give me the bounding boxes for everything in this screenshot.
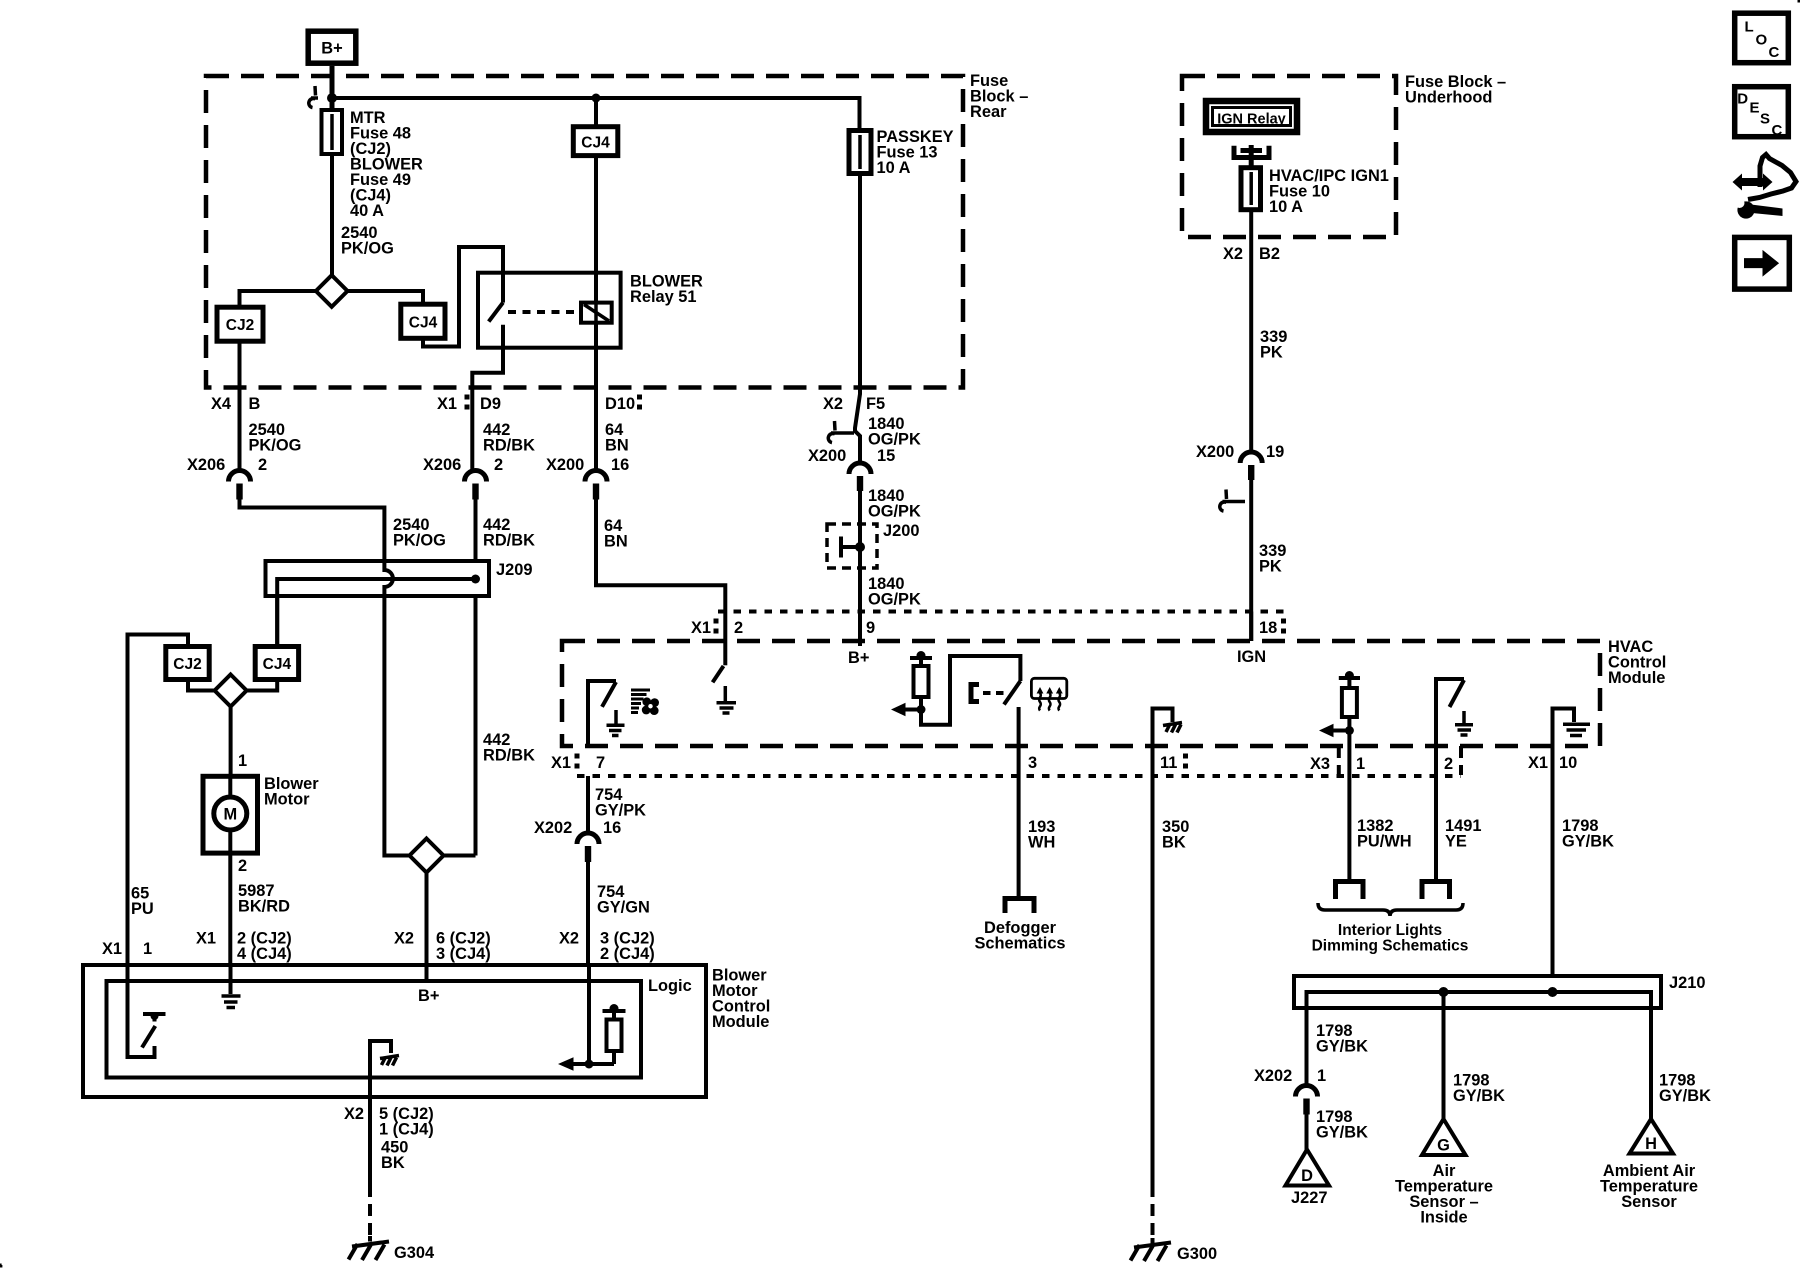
blower speed resistor T-bar — [910, 656, 932, 660]
svg-text:18: 18 — [1259, 619, 1277, 637]
svg-text:Underhood: Underhood — [1405, 89, 1492, 107]
separator dots 11 — [1183, 754, 1188, 759]
svg-text:1: 1 — [238, 752, 247, 770]
junction dot J210 G — [1439, 987, 1449, 997]
actuator bracket — [971, 685, 979, 702]
wire CJ2 to diamond — [188, 680, 215, 691]
wire 350 BK dashed tail — [1151, 1185, 1155, 1238]
separator dots D10 — [637, 395, 642, 400]
connector X200 pin15 — [849, 463, 871, 474]
svg-text:11: 11 — [1160, 754, 1177, 772]
svg-text:3 (CJ4): 3 (CJ4) — [436, 945, 491, 963]
module switch lever — [142, 1026, 155, 1048]
svg-text:Relay 51: Relay 51 — [630, 288, 697, 306]
connector box CJ2 (lower) — [166, 647, 209, 680]
svg-text:Module: Module — [712, 1013, 769, 1031]
wire CJ4 top to relay coil — [594, 156, 598, 303]
svg-text:G304: G304 — [394, 1244, 435, 1262]
wire B+ feed down — [330, 66, 335, 110]
wire CJ4 to relay common — [423, 247, 503, 347]
wire 65 PU — [128, 635, 189, 966]
svg-text:RD/BK: RD/BK — [483, 437, 535, 455]
svg-text:OG/PK: OG/PK — [868, 503, 921, 521]
ground symbol below X1-7 switch — [607, 710, 625, 736]
scan artifact top-right — [1798, 0, 1800, 3]
svg-text:GY/BK: GY/BK — [1453, 1087, 1505, 1105]
svg-text:GY/BK: GY/BK — [1562, 833, 1614, 851]
blower speed resistor — [919, 658, 923, 666]
relay actuation dashes — [508, 310, 578, 314]
icon box right arrow — [1735, 237, 1790, 289]
triangle terminal H — [1630, 1119, 1674, 1154]
svg-text:CJ4: CJ4 — [409, 315, 438, 332]
wire 193 WH to defogger — [1017, 776, 1021, 897]
internal ground at X1-10 — [1553, 709, 1575, 777]
svg-text:L: L — [1745, 19, 1754, 36]
svg-text:PK: PK — [1259, 558, 1282, 576]
wire 1491 YE — [1434, 776, 1438, 880]
svg-text:Dimming Schematics: Dimming Schematics — [1312, 938, 1469, 955]
svg-text:40 A: 40 A — [350, 202, 384, 220]
off-page terminal defogger — [1005, 899, 1034, 914]
connector X200 pin19 — [1240, 452, 1262, 463]
svg-text:7: 7 — [596, 754, 605, 772]
wire 754 GY/GN to BMCM — [586, 861, 590, 965]
svg-text:BN: BN — [605, 437, 629, 455]
svg-text:X1: X1 — [691, 619, 711, 637]
svg-text:C: C — [1772, 122, 1783, 139]
motor symbol M — [214, 797, 247, 830]
svg-text:WH: WH — [1028, 834, 1055, 852]
svg-text:E: E — [1750, 100, 1760, 117]
power symbol B+ — [308, 31, 356, 63]
svg-text:GY/PK: GY/PK — [595, 802, 646, 820]
dimmer resistor T-bar — [1339, 676, 1360, 680]
scan artifact bottom-left — [0, 1264, 2, 1268]
svg-text:2 (CJ4): 2 (CJ4) — [600, 945, 655, 963]
svg-text:B+: B+ — [848, 649, 869, 667]
connector box CJ2 — [217, 307, 263, 341]
svg-text:GY/BK: GY/BK — [1659, 1087, 1711, 1105]
separator dots X1-7 — [575, 754, 580, 759]
svg-text:X1: X1 — [102, 940, 122, 958]
wire X206 down through J209 — [474, 499, 478, 856]
wire 350 BK — [1151, 776, 1155, 1185]
svg-text:Module: Module — [1608, 669, 1665, 687]
svg-text:16: 16 — [611, 456, 629, 474]
svg-text:Interior Lights: Interior Lights — [1338, 922, 1442, 939]
wire X206 to J209 — [240, 499, 385, 561]
svg-text:X1: X1 — [1528, 754, 1548, 772]
relay coil box — [581, 303, 612, 323]
svg-text:X2: X2 — [823, 395, 843, 413]
svg-text:J210: J210 — [1669, 974, 1705, 992]
svg-text:3: 3 — [1028, 754, 1037, 772]
icon harness outline — [1748, 155, 1796, 200]
ground symbol below X1-2 switch — [717, 686, 737, 713]
svg-text:1: 1 — [1317, 1067, 1326, 1085]
svg-text:2: 2 — [494, 456, 503, 474]
svg-text:2: 2 — [238, 857, 247, 875]
wire 754 GY/PK to X202 — [586, 776, 590, 833]
wire bus down to CJ4 top box — [594, 98, 598, 127]
svg-text:4 (CJ4): 4 (CJ4) — [237, 945, 292, 963]
svg-text:IGN Relay: IGN Relay — [1217, 112, 1286, 128]
svg-text:X2: X2 — [394, 930, 414, 948]
relay switch lever — [489, 303, 503, 322]
connector X206 pin2 (right) — [465, 471, 487, 482]
svg-text:2: 2 — [258, 456, 267, 474]
IGN Relay box — [1206, 101, 1297, 132]
wire 18 entry stub — [1249, 612, 1253, 642]
icon wrench — [1735, 198, 1783, 219]
svg-text:X2: X2 — [559, 930, 579, 948]
svg-text:M: M — [223, 806, 237, 824]
splice diamond S1 — [316, 275, 348, 307]
svg-text:B+: B+ — [321, 40, 342, 58]
junction dot J210 feed — [1548, 987, 1558, 997]
fuse MTR Fuse 48 / BLOWER Fuse 49 — [322, 110, 343, 154]
connector box CJ4 (lower) — [255, 647, 298, 680]
wire F5 jog — [855, 390, 860, 463]
svg-text:RD/BK: RD/BK — [483, 532, 535, 550]
svg-text:OG/PK: OG/PK — [868, 431, 921, 449]
connector box CJ4 (top) — [573, 127, 618, 156]
chassis ground glyph 11 — [1163, 723, 1182, 733]
fuse block - rear dashed border — [206, 76, 963, 388]
svg-text:YE: YE — [1445, 833, 1467, 851]
svg-text:X200: X200 — [546, 456, 584, 474]
svg-text:PK/OG: PK/OG — [393, 532, 446, 550]
blower motor control module outer box — [83, 965, 706, 1097]
wire 2540 hop through J209 — [384, 561, 409, 856]
svg-text:X200: X200 — [808, 447, 846, 465]
splice diamond S2 — [215, 675, 247, 707]
svg-text:B+: B+ — [418, 987, 439, 1005]
svg-text:1: 1 — [1356, 755, 1365, 773]
svg-text:B: B — [249, 395, 261, 413]
off-page terminal 1382 — [1336, 882, 1364, 900]
separator dots X1-D9 — [465, 395, 470, 400]
svg-text:10 A: 10 A — [877, 159, 911, 177]
relay switch common stub — [501, 273, 505, 303]
thermal switch fixed contact wire to 3 — [1017, 707, 1021, 776]
arrow into logic — [573, 1062, 614, 1066]
svg-text:CJ4: CJ4 — [581, 135, 610, 152]
internal ground at 11 — [1153, 709, 1173, 777]
svg-text:J209: J209 — [496, 561, 532, 579]
svg-text:2: 2 — [1444, 755, 1453, 773]
svg-text:H: H — [1645, 1135, 1657, 1153]
actuation dashes — [983, 691, 1006, 695]
clip symbol at B+ — [309, 86, 318, 108]
module switch T-bar — [143, 1012, 166, 1016]
wire X1-2 to internal ground — [229, 965, 233, 994]
wire diamond to CJ4 — [348, 291, 424, 304]
svg-text:GY/GN: GY/GN — [597, 899, 650, 917]
connector X200 pin16 — [585, 471, 607, 482]
svg-text:X206: X206 — [423, 456, 461, 474]
fuse block underhood dashed border — [1182, 76, 1396, 237]
ground symbol X1-10 — [1563, 724, 1590, 735]
svg-text:BK: BK — [1162, 834, 1186, 852]
svg-text:BK/RD: BK/RD — [238, 898, 290, 916]
svg-text:19: 19 — [1266, 443, 1284, 461]
wire X1-1 into module — [128, 965, 155, 1057]
wire 1798 GY/BK from X1-10 to J210 — [1551, 776, 1555, 976]
wire main bus to passkey fuse — [332, 98, 860, 131]
icon box LOC — [1735, 13, 1789, 63]
svg-text:G: G — [1437, 1137, 1450, 1155]
wire X2-3 into module — [587, 965, 591, 1064]
junction dot J209 — [471, 575, 480, 584]
wire 64 BN to X1-2 — [596, 499, 725, 641]
off-page terminal 1491 — [1422, 882, 1450, 900]
X3 connector sub-box dashed — [1339, 746, 1461, 775]
wire CJ2 to X4-B exit — [238, 341, 242, 470]
svg-text:Logic: Logic — [648, 977, 692, 995]
wire X2-6 B+ stub — [425, 965, 429, 983]
svg-text:OG/PK: OG/PK — [868, 591, 921, 609]
svg-text:F5: F5 — [866, 395, 885, 413]
blower motor control module logic box — [107, 981, 642, 1078]
wire relay coil to D10 — [594, 323, 598, 471]
svg-text:Schematics: Schematics — [974, 935, 1065, 953]
svg-text:Sensor: Sensor — [1621, 1193, 1677, 1211]
relay coil diagonal — [584, 305, 609, 322]
interior lights brace — [1318, 903, 1463, 916]
svg-text:X200: X200 — [1196, 443, 1234, 461]
ground G300 — [1131, 1238, 1172, 1261]
svg-text:X1: X1 — [551, 754, 571, 772]
blower motor box — [203, 776, 258, 853]
relay fixed contact to D9 — [472, 325, 503, 471]
svg-text:PK: PK — [1260, 344, 1283, 362]
svg-text:X206: X206 — [187, 456, 225, 474]
wire 1382 PU/WH — [1347, 746, 1351, 880]
splice diamond S3 — [410, 839, 444, 873]
clip symbol at F5 — [828, 421, 854, 443]
separator dots X1-2 — [714, 619, 719, 624]
chassis ground glyph BMCM — [380, 1056, 399, 1066]
icon double arrow — [1733, 174, 1773, 191]
junction dot J200 — [855, 542, 865, 552]
svg-text:CJ2: CJ2 — [226, 317, 254, 334]
separator dots 18 — [1281, 619, 1286, 624]
svg-text:GY/BK: GY/BK — [1316, 1038, 1368, 1056]
wire 450 BK dashed tail — [368, 1185, 372, 1236]
wire to sensor G — [1442, 992, 1446, 1120]
svg-text:10 A: 10 A — [1269, 198, 1303, 216]
feedback resistor — [612, 1011, 616, 1020]
svg-text:PK/OG: PK/OG — [249, 437, 302, 455]
svg-text:X2: X2 — [344, 1105, 364, 1123]
blower relay 51 box — [478, 273, 621, 348]
wire resistor to thermal switch — [921, 656, 1020, 725]
wire passkey fuse to X2-F5 — [858, 174, 862, 391]
svg-text:J227: J227 — [1291, 1189, 1327, 1207]
junction dot bus CJ4 — [592, 94, 601, 103]
splice J200 dashed box — [827, 524, 877, 568]
wire J209 to CJ4 lower — [275, 596, 279, 647]
svg-text:S: S — [1760, 111, 1770, 128]
switch at X1-2 — [723, 641, 727, 665]
fuse PASSKEY Fuse 13 — [849, 131, 871, 174]
triangle terminal D (J227) — [1286, 1150, 1330, 1186]
internal chassis ground X2-5 — [370, 1041, 391, 1097]
svg-text:2: 2 — [734, 619, 743, 637]
svg-text:D9: D9 — [480, 395, 501, 413]
svg-text:RD/BK: RD/BK — [483, 747, 535, 765]
svg-text:X1: X1 — [196, 930, 216, 948]
switch at 2 (X3) — [1436, 679, 1464, 776]
arrow output left — [891, 703, 906, 716]
relay output bracket symbol — [1234, 145, 1269, 168]
icon box DESC — [1735, 87, 1789, 137]
svg-text:PU/WH: PU/WH — [1357, 833, 1412, 851]
wire X200 to J200 — [858, 491, 862, 612]
wire diamond to blower motor — [229, 707, 233, 777]
svg-text:16: 16 — [603, 819, 621, 837]
svg-text:CJ4: CJ4 — [263, 656, 292, 673]
junction dot B+ bus — [327, 93, 337, 103]
svg-text:BN: BN — [604, 533, 628, 551]
fuse HVAC/IPC IGN1 Fuse 10 — [1241, 168, 1261, 210]
svg-text:B2: B2 — [1259, 245, 1280, 263]
J209 internal bus — [277, 579, 475, 647]
svg-text:PK/OG: PK/OG — [341, 240, 394, 258]
wire X200 to IGN entry — [1249, 480, 1253, 641]
svg-text:Inside: Inside — [1420, 1209, 1467, 1227]
svg-text:PU: PU — [131, 900, 154, 918]
feedback resistor T-bar — [603, 1009, 626, 1013]
switch at X1-7 — [588, 681, 616, 746]
connector face dotted line (top) — [718, 610, 1285, 614]
wire diamond to BMCM — [425, 873, 429, 966]
svg-text:C: C — [1769, 44, 1780, 61]
svg-text:G300: G300 — [1177, 1245, 1217, 1263]
svg-text:CJ2: CJ2 — [173, 656, 201, 673]
ground symbol BMCM — [222, 996, 241, 1008]
wire to X202 pin1 — [1305, 1030, 1309, 1086]
svg-text:Rear: Rear — [970, 103, 1007, 121]
wire 442 into diamond — [444, 854, 476, 858]
label B+ entry 9 — [858, 612, 862, 647]
wire to sensor H — [1649, 1030, 1653, 1120]
svg-text:D10: D10 — [605, 395, 635, 413]
svg-text:X2: X2 — [1223, 245, 1243, 263]
fan icon — [631, 690, 650, 713]
svg-text:1: 1 — [143, 940, 152, 958]
arrow output left at X3-1 — [1319, 724, 1334, 737]
J200 tap symbol — [841, 537, 856, 558]
svg-text:10: 10 — [1559, 754, 1577, 772]
connector X206 pin2 (left) — [229, 471, 251, 482]
svg-text:9: 9 — [866, 619, 875, 637]
thermal switch lever — [1004, 681, 1020, 705]
dimmer resistor — [1347, 678, 1351, 688]
wire CJ4 to diamond — [247, 680, 278, 691]
connector box CJ4 (fuse block) — [401, 304, 445, 338]
svg-text:GY/BK: GY/BK — [1316, 1124, 1368, 1142]
svg-text:X202: X202 — [1254, 1067, 1292, 1085]
wire diamond to CJ2 — [240, 291, 316, 307]
wire to J227 — [1305, 1114, 1309, 1150]
splice pack J209 box — [266, 561, 490, 596]
connector face dotted line (bottom) — [577, 774, 1461, 778]
wire fuse to X2-B2 — [1249, 210, 1253, 452]
svg-text:X1: X1 — [437, 395, 457, 413]
clip symbol at X200 19 — [1220, 490, 1245, 512]
svg-text:IGN: IGN — [1237, 648, 1266, 666]
wire fuse to splice diamond — [330, 154, 334, 276]
HVAC control module dashed border — [562, 641, 1600, 746]
svg-text:X202: X202 — [534, 819, 572, 837]
connector X202 pin1 — [1296, 1086, 1318, 1097]
svg-text:1 (CJ4): 1 (CJ4) — [379, 1121, 434, 1139]
triangle terminal G — [1422, 1119, 1466, 1155]
splice pack J210 box — [1294, 976, 1661, 1008]
wire 450 BK — [368, 1097, 372, 1185]
ground G304 — [349, 1236, 390, 1260]
svg-text:X3: X3 — [1310, 755, 1330, 773]
svg-text:15: 15 — [877, 447, 895, 465]
connector X202 pin16 — [577, 833, 599, 844]
svg-text:O: O — [1756, 32, 1768, 49]
svg-text:BK: BK — [381, 1154, 405, 1172]
svg-text:Motor: Motor — [264, 791, 310, 809]
J210 internal bus — [1307, 992, 1652, 1030]
svg-text:X4: X4 — [211, 395, 232, 413]
heater grid icon — [1031, 678, 1066, 698]
svg-text:J200: J200 — [883, 522, 919, 540]
ground symbol below X3-2 switch — [1455, 711, 1473, 735]
wire 5987 BK/RD — [228, 853, 232, 965]
svg-text:D: D — [1301, 1167, 1313, 1185]
svg-text:D: D — [1737, 91, 1748, 108]
